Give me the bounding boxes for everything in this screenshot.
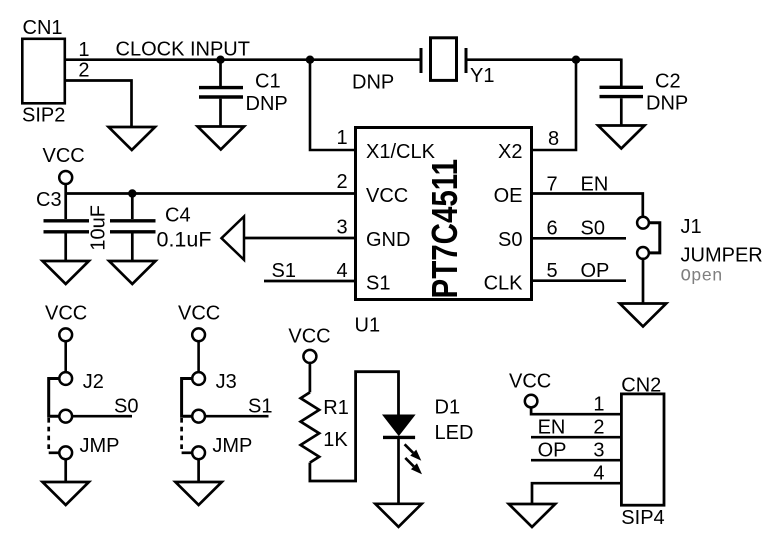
svg-text:1: 1: [78, 39, 89, 61]
svg-text:S0: S0: [498, 229, 522, 251]
svg-text:5: 5: [547, 260, 558, 282]
svg-text:OP: OP: [581, 260, 610, 282]
svg-text:3: 3: [337, 216, 348, 238]
svg-text:2: 2: [337, 171, 348, 193]
svg-text:R1: R1: [323, 397, 349, 419]
svg-text:C1: C1: [255, 70, 281, 92]
svg-text:0.1uF: 0.1uF: [157, 227, 212, 251]
svg-text:1: 1: [593, 394, 604, 416]
svg-text:GND: GND: [366, 229, 410, 251]
svg-text:OP: OP: [538, 440, 567, 462]
svg-text:SIP2: SIP2: [22, 105, 65, 127]
svg-text:EN: EN: [581, 174, 609, 196]
svg-text:D1: D1: [435, 397, 461, 419]
svg-text:DNP: DNP: [246, 93, 288, 115]
svg-text:S1: S1: [248, 396, 272, 418]
svg-text:CLOCK INPUT: CLOCK INPUT: [116, 39, 250, 61]
svg-text:U1: U1: [355, 315, 381, 337]
svg-text:JMP: JMP: [212, 435, 252, 457]
svg-text:4: 4: [593, 463, 604, 485]
svg-text:1: 1: [337, 127, 348, 149]
svg-text:X2: X2: [498, 141, 522, 163]
svg-text:EN: EN: [538, 417, 566, 439]
svg-text:C4: C4: [165, 204, 191, 226]
svg-text:SIP4: SIP4: [621, 507, 664, 529]
svg-text:6: 6: [547, 218, 558, 240]
svg-text:1K: 1K: [323, 429, 348, 451]
svg-text:J3: J3: [216, 371, 237, 393]
svg-text:10uF: 10uF: [88, 205, 110, 251]
svg-text:Open: Open: [681, 267, 723, 287]
svg-text:DNP: DNP: [646, 93, 688, 115]
svg-text:Y1: Y1: [470, 65, 494, 87]
svg-text:VCC: VCC: [45, 303, 87, 325]
svg-text:3: 3: [593, 440, 604, 462]
svg-text:S0: S0: [114, 396, 138, 418]
svg-text:CLK: CLK: [484, 272, 524, 294]
svg-text:S1: S1: [272, 260, 296, 282]
svg-text:X1/CLK: X1/CLK: [366, 141, 436, 163]
svg-text:PT7C4511: PT7C4511: [424, 159, 465, 299]
svg-text:JUMPER: JUMPER: [681, 244, 763, 266]
svg-text:S1: S1: [366, 272, 390, 294]
svg-text:4: 4: [337, 260, 348, 282]
svg-text:JMP: JMP: [80, 435, 120, 457]
svg-text:OE: OE: [494, 185, 523, 207]
svg-text:VCC: VCC: [366, 185, 408, 207]
svg-text:J1: J1: [681, 216, 702, 238]
svg-text:S0: S0: [581, 218, 605, 240]
svg-text:VCC: VCC: [43, 145, 85, 167]
svg-text:VCC: VCC: [509, 371, 551, 393]
svg-text:C2: C2: [655, 71, 681, 93]
svg-text:DNP: DNP: [352, 72, 394, 94]
svg-text:2: 2: [593, 417, 604, 439]
svg-text:LED: LED: [435, 422, 474, 444]
svg-text:VCC: VCC: [178, 303, 220, 325]
svg-text:VCC: VCC: [288, 325, 330, 347]
svg-text:8: 8: [548, 128, 559, 150]
svg-text:J2: J2: [83, 371, 104, 393]
svg-text:7: 7: [547, 174, 558, 196]
svg-text:C3: C3: [36, 189, 62, 211]
svg-text:CN1: CN1: [23, 17, 63, 39]
svg-text:2: 2: [78, 60, 89, 82]
